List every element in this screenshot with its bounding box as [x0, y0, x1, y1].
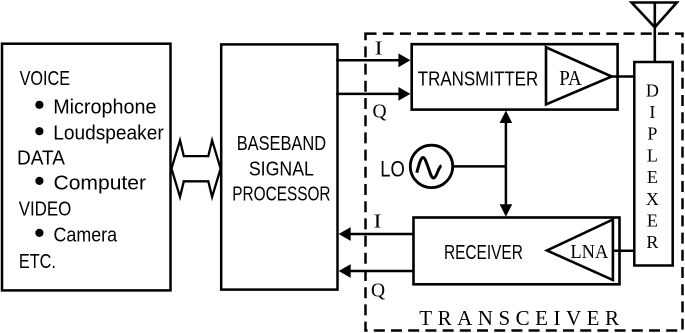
svg-text:I: I — [375, 38, 383, 59]
svg-text:TRANSCEIVER: TRANSCEIVER — [419, 306, 619, 330]
bidirectional arrow between source box and baseband processor — [172, 140, 221, 197]
transceiver dashed enclosure — [366, 34, 683, 331]
svg-text:P: P — [647, 124, 657, 144]
svg-text:L: L — [647, 145, 658, 165]
amplifier PA — [546, 47, 612, 104]
label DIPLEXER (vertical) — [646, 80, 659, 252]
wire Q receiver to baseband — [339, 264, 413, 278]
svg-text:PROCESSOR: PROCESSOR — [232, 184, 330, 206]
svg-text:LNA: LNA — [570, 241, 608, 263]
svg-text:ETC.: ETC. — [19, 251, 56, 273]
antenna feed wire — [653, 3, 656, 63]
svg-text:VOICE: VOICE — [20, 68, 71, 90]
svg-text:Q: Q — [371, 281, 385, 302]
wire I baseband to transmitter — [336, 53, 410, 67]
svg-text:Camera: Camera — [54, 225, 118, 247]
wire LO vertical with arrows — [500, 111, 513, 217]
svg-text:LO: LO — [380, 156, 405, 181]
wire Q baseband to transmitter — [336, 87, 410, 101]
bullet computer — [35, 177, 43, 185]
antenna — [632, 3, 677, 28]
svg-text:D: D — [646, 80, 659, 100]
svg-text:X: X — [646, 189, 659, 209]
wire LO to splitter — [453, 165, 506, 168]
diplexer box — [634, 62, 672, 266]
bullet loudspeaker — [35, 127, 43, 135]
svg-text:Computer: Computer — [54, 173, 147, 195]
bullet microphone — [35, 101, 43, 109]
svg-text:Q: Q — [372, 101, 386, 122]
svg-text:SIGNAL: SIGNAL — [249, 158, 314, 180]
wire PA to diplexer — [612, 75, 635, 78]
svg-text:PA: PA — [559, 66, 582, 90]
svg-text:VIDEO: VIDEO — [19, 199, 72, 221]
svg-text:BASEBAND: BASEBAND — [237, 133, 326, 155]
svg-text:RECEIVER: RECEIVER — [444, 242, 523, 264]
baseband signal processor box — [221, 44, 337, 289]
svg-text:DATA: DATA — [17, 148, 65, 170]
svg-text:I: I — [374, 212, 382, 233]
amplifier LNA — [547, 220, 613, 281]
LO oscillator — [410, 145, 452, 187]
svg-text:Loudspeaker: Loudspeaker — [53, 123, 164, 145]
svg-text:R: R — [646, 232, 658, 252]
svg-text:I: I — [649, 102, 655, 122]
wire I receiver to baseband — [339, 227, 413, 241]
wire diplexer to LNA — [613, 249, 635, 252]
bullet camera — [35, 229, 43, 237]
svg-text:Microphone: Microphone — [53, 96, 156, 118]
receiver box — [414, 218, 620, 285]
source box (VOICE/DATA/VIDEO) — [2, 44, 171, 291]
svg-text:E: E — [647, 211, 658, 231]
svg-text:E: E — [647, 167, 658, 187]
svg-text:TRANSMITTER: TRANSMITTER — [418, 69, 538, 91]
transmitter box — [412, 44, 618, 109]
